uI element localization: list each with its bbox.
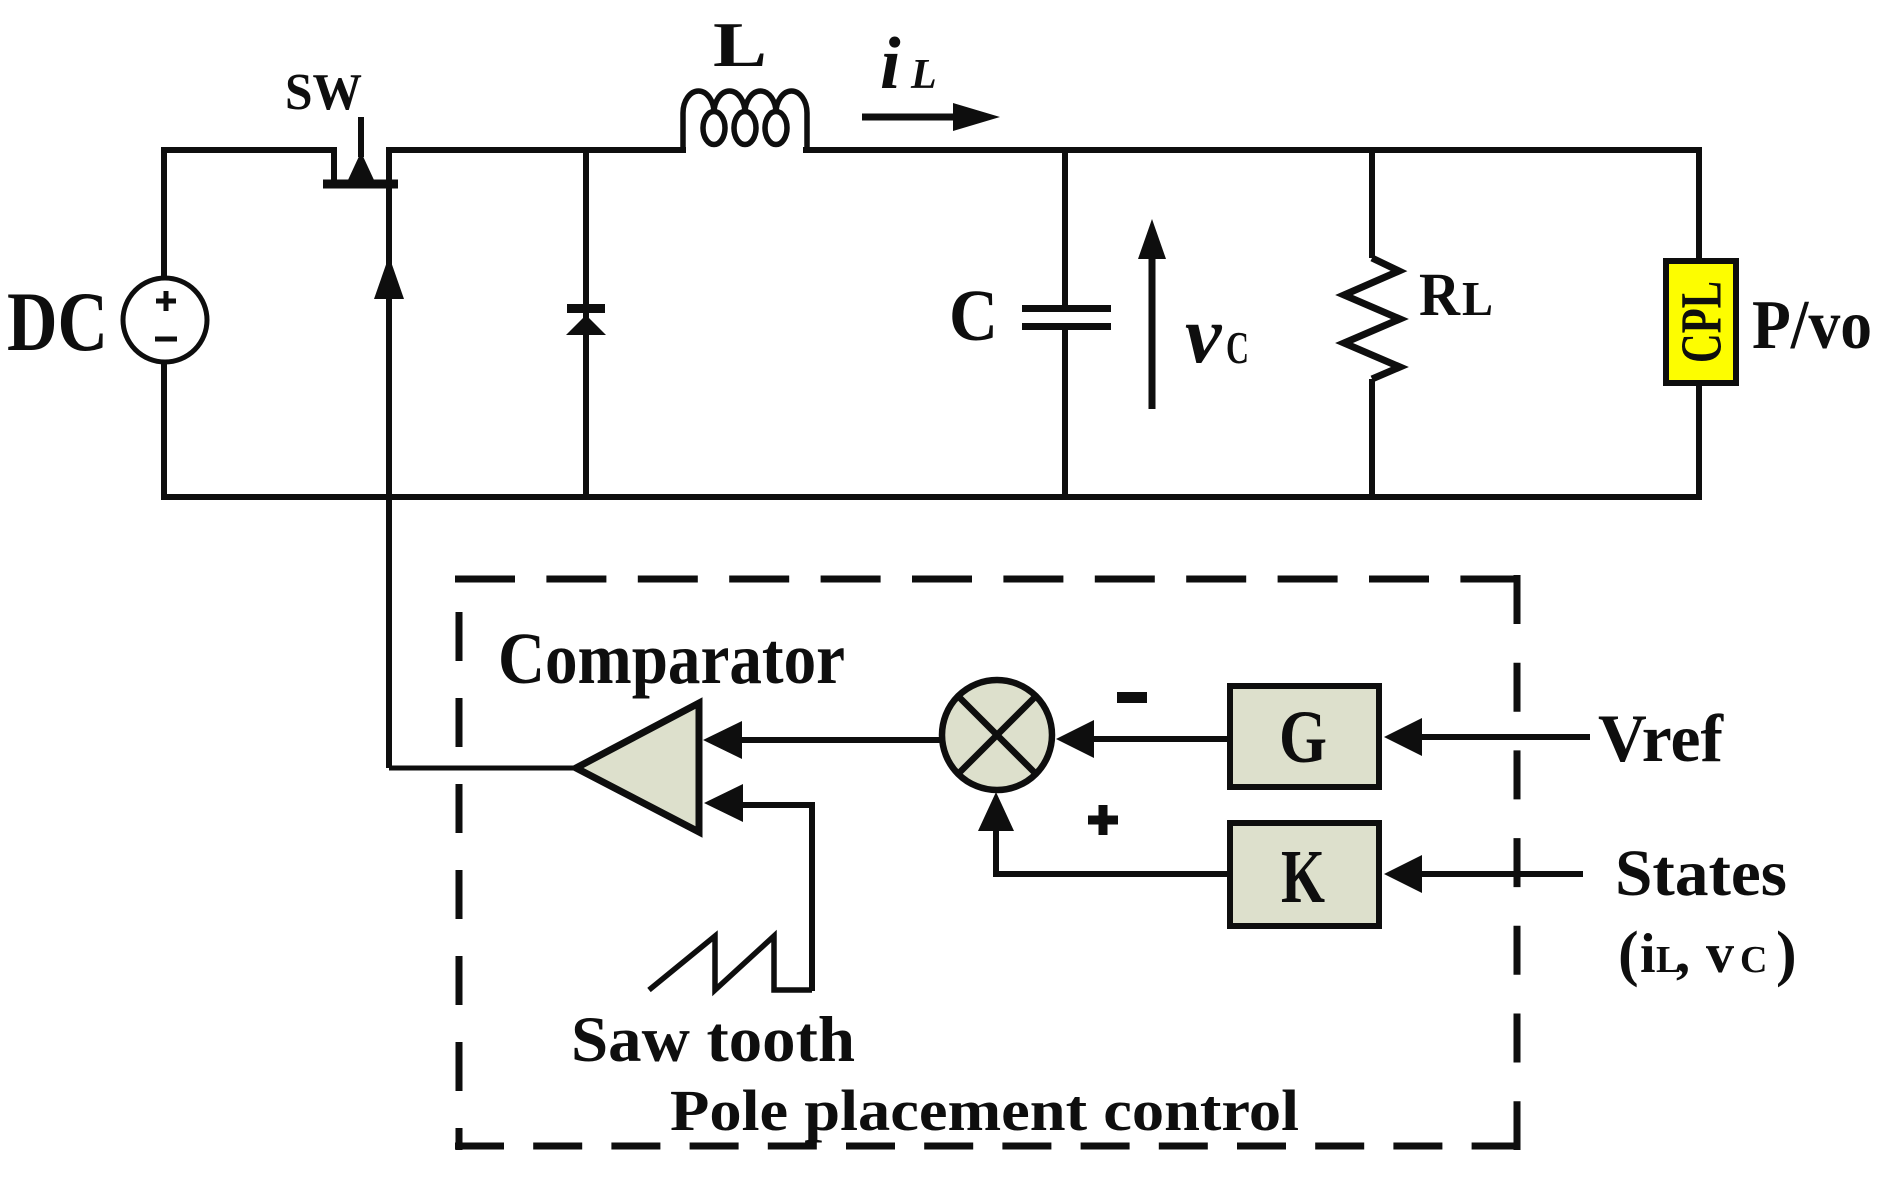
arrowhead into multiplier bottom [978, 792, 1014, 831]
svg-text:G: G [1279, 696, 1327, 779]
DC source V1 [123, 278, 207, 362]
wire right vertical upper [1696, 150, 1702, 262]
wire gate feedback vertical [386, 150, 392, 768]
dashed control box [455, 575, 1521, 1150]
svg-text:SW: SW [285, 64, 362, 121]
svg-text:(: ( [1618, 920, 1639, 988]
wire left vertical upper [161, 150, 167, 279]
capacitor C [1022, 150, 1111, 497]
wire States into K [1418, 871, 1583, 877]
svg-text:Saw tooth: Saw tooth [571, 1004, 855, 1076]
CPL block [1666, 261, 1736, 383]
svg-text:L: L [713, 9, 767, 80]
wire Vref into G [1418, 734, 1590, 740]
label plus [1088, 805, 1118, 835]
svg-text:,: , [1676, 923, 1690, 985]
wire top rail right segment [806, 147, 1699, 153]
iL current arrow [862, 103, 1000, 131]
arrowhead into G [1384, 718, 1422, 756]
wire top rail middle segment [389, 147, 683, 153]
svg-text:P/vo: P/vo [1752, 287, 1872, 364]
vC voltage arrow [1138, 219, 1166, 409]
svg-text:Vref: Vref [1598, 700, 1724, 776]
block K [1230, 823, 1379, 926]
svg-text:K: K [1281, 835, 1325, 919]
multiplier node circle with X [942, 680, 1052, 790]
svg-text:L: L [910, 52, 937, 98]
wire top rail left segment [164, 147, 334, 153]
inductor L coil [683, 91, 807, 150]
arrowhead into multiplier right [1056, 720, 1094, 758]
wire right vertical lower [1696, 383, 1702, 497]
wire comparator output [389, 766, 578, 771]
label minus [1117, 692, 1147, 703]
wire bottom rail [164, 494, 1699, 500]
svg-text:i: i [880, 23, 901, 105]
switch SW (MOSFET) [323, 117, 398, 184]
svg-text:CPL: CPL [1669, 281, 1734, 363]
svg-text:C: C [1740, 939, 1767, 981]
svg-text:States: States [1615, 837, 1787, 910]
svg-text:L: L [1462, 271, 1493, 326]
comparator U1 triangle [576, 703, 699, 832]
sawtooth waveform [649, 936, 812, 990]
svg-text:v: v [1185, 289, 1223, 380]
svg-text:Comparator: Comparator [498, 618, 845, 699]
svg-text:i: i [1640, 923, 1656, 985]
wire left vertical lower [161, 362, 167, 497]
wire multiplier to comparator [740, 737, 941, 743]
arrowhead into K [1384, 855, 1422, 893]
block G [1230, 686, 1379, 787]
arrowhead into comparator top input [703, 721, 742, 759]
wire K output to multiplier [996, 800, 1229, 874]
svg-text:C: C [1226, 322, 1249, 373]
svg-text:DC: DC [7, 275, 108, 369]
resistor RL [1344, 150, 1400, 497]
svg-text:v: v [1706, 923, 1734, 985]
wire sawtooth to comparator [742, 805, 812, 991]
svg-text:): ) [1776, 920, 1797, 988]
diode D1 [566, 150, 606, 497]
arrow up on feedback wire [374, 256, 404, 299]
svg-text:C: C [949, 275, 998, 356]
svg-text:R: R [1419, 262, 1461, 329]
svg-text:Pole placement control: Pole placement control [670, 1078, 1299, 1143]
wire G to multiplier [1090, 736, 1229, 742]
arrowhead into comparator bottom input [704, 784, 743, 822]
